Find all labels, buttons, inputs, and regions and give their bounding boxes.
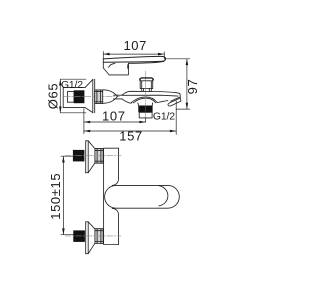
svg-text:G1/2: G1/2 (153, 111, 175, 122)
svg-text:Ø65: Ø65 (46, 83, 61, 109)
svg-text:157: 157 (119, 128, 143, 143)
svg-text:107: 107 (102, 109, 126, 124)
svg-text:107: 107 (123, 38, 147, 53)
svg-text:G1/2: G1/2 (61, 80, 83, 91)
svg-text:97: 97 (185, 79, 200, 95)
svg-text:150±15: 150±15 (48, 173, 63, 220)
